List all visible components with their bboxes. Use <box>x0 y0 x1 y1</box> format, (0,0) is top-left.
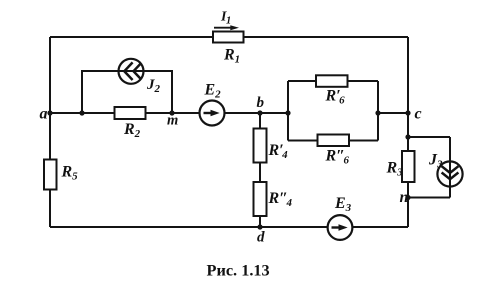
EMF source E2 <box>200 101 225 126</box>
wire J3 branch bottom to node n <box>408 197 450 199</box>
wire J3 branch top <box>408 136 450 138</box>
svg-text:d: d <box>257 230 265 246</box>
wire E2 to node b to parallel block <box>225 112 289 114</box>
svg-text:m: m <box>167 113 178 129</box>
node label b <box>257 95 265 111</box>
node d junction dot <box>257 224 262 229</box>
wire node b down to node d <box>259 113 261 227</box>
label R''4 <box>268 190 293 209</box>
label E2 <box>204 82 222 101</box>
svg-text:I1: I1 <box>220 9 231 26</box>
node c junction dot <box>405 110 410 115</box>
svg-text:b: b <box>257 95 265 111</box>
svg-text:R′4: R′4 <box>268 142 289 161</box>
current arrow I1 <box>214 25 239 30</box>
svg-text:E3: E3 <box>334 195 352 214</box>
junction dot parallel block right <box>375 110 380 115</box>
label R'6 <box>325 88 346 107</box>
wire parallel block right leg <box>377 81 379 141</box>
resistor R'4 <box>254 129 267 163</box>
svg-text:R5: R5 <box>61 164 79 183</box>
resistor R3 <box>402 151 415 182</box>
current source J2 <box>119 59 144 84</box>
wire parallel block to node c <box>378 112 408 114</box>
svg-text:a: a <box>40 106 48 123</box>
junction dot J3 branch top <box>405 134 410 139</box>
junction dot parallel block left <box>285 110 290 115</box>
label R'4 <box>268 142 289 161</box>
resistor R2 <box>115 107 146 119</box>
current source J3 <box>437 161 462 186</box>
wire J2 loop <box>82 71 172 113</box>
wire J3 branch vertical <box>449 137 451 198</box>
wire left rail <box>49 37 51 227</box>
svg-text:J2: J2 <box>146 77 161 95</box>
wire bottom rail <box>50 226 408 228</box>
svg-text:R2: R2 <box>123 121 141 140</box>
junction dot J2 left <box>79 110 84 115</box>
svg-text:c: c <box>415 106 422 123</box>
svg-text:J3: J3 <box>428 152 443 171</box>
node n junction dot <box>405 195 410 200</box>
label E3 <box>334 195 352 214</box>
svg-text:Рис. 1.13: Рис. 1.13 <box>207 261 270 280</box>
label R1 <box>223 47 240 66</box>
svg-text:R″4: R″4 <box>268 190 293 209</box>
svg-text:R′6: R′6 <box>325 88 346 107</box>
label J2 <box>146 77 161 95</box>
wire parallel block top rail <box>288 80 378 82</box>
resistor R1 <box>213 32 244 43</box>
resistor R5 <box>44 160 57 190</box>
label J3 <box>428 152 443 171</box>
label I1 <box>220 9 231 26</box>
label R''6 <box>325 148 350 167</box>
wire top rail a-c <box>50 36 408 38</box>
node label m <box>167 113 178 129</box>
wire parallel block bottom rail <box>288 140 378 142</box>
caption Рис. 1.13 <box>207 261 270 280</box>
wire parallel block left leg <box>287 81 289 141</box>
wire a to E2 <box>50 112 200 114</box>
svg-text:R1: R1 <box>223 47 240 66</box>
svg-text:R″6: R″6 <box>325 148 350 167</box>
resistor R''4 <box>254 182 267 216</box>
svg-text:n: n <box>400 189 409 206</box>
node m junction dot <box>169 110 174 115</box>
label R3 <box>386 160 404 179</box>
node b junction dot <box>257 110 262 115</box>
node label c <box>415 106 422 123</box>
resistor R'6 <box>316 75 348 87</box>
label R2 <box>123 121 141 140</box>
node label n <box>400 189 409 206</box>
svg-text:R3: R3 <box>386 160 404 179</box>
label R5 <box>61 164 79 183</box>
resistor R''6 <box>318 135 350 147</box>
wire right rail <box>407 37 409 227</box>
EMF source E3 <box>328 215 353 240</box>
node a junction dot <box>47 110 52 115</box>
node label d <box>257 230 265 246</box>
node label a <box>40 106 48 123</box>
svg-text:E2: E2 <box>204 82 222 101</box>
